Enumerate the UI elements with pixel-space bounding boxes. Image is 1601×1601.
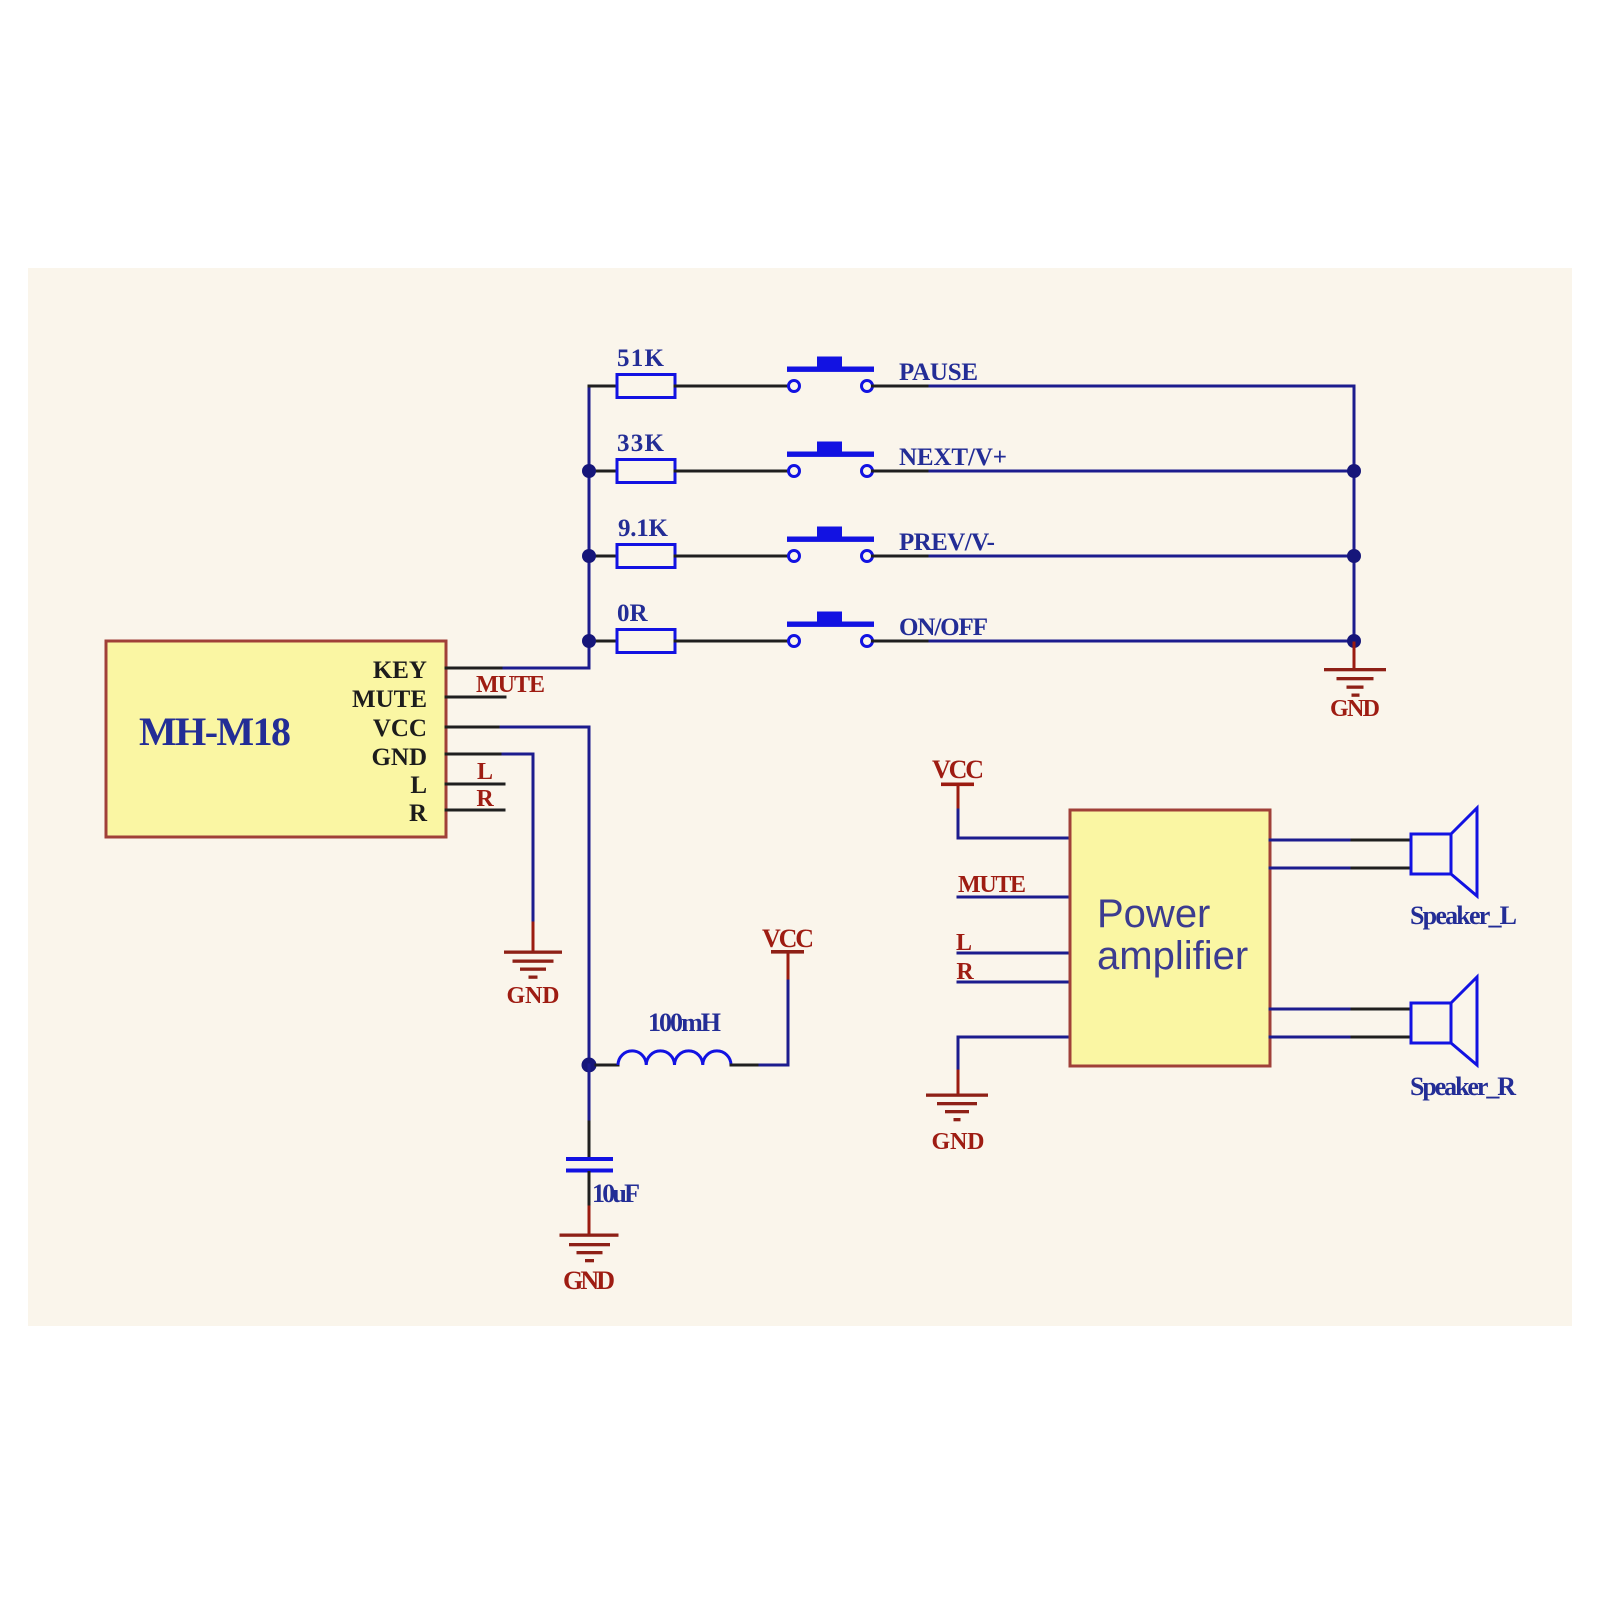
svg-text:amplifier: amplifier [1097,934,1248,978]
wire: GND to amplifier [958,1037,1070,1071]
wire: row4 bus to resistor [589,640,617,643]
svg-text:GND: GND [563,1266,615,1295]
block Power amplifier [1070,810,1270,1066]
ground symbol right [1324,668,1386,697]
wire: row2 bus to resistor [589,470,617,473]
wire: red stub to right ground [1353,643,1356,668]
speaker Speaker_L [1411,808,1477,896]
wire: module GND to ground [503,754,533,923]
junction dots on left bus [582,464,596,478]
node: VCC junction [582,1058,597,1073]
resistor 33K [617,460,675,483]
wire: capacitor to ground [588,1173,591,1208]
wire: L to amplifier [958,952,1070,955]
capacitor 10uF [566,1157,613,1173]
resistor 0R [617,630,675,653]
svg-text:10uF: 10uF [592,1179,640,1208]
pushbutton NEXT/V+ [787,442,874,477]
junction dots on right bus [1347,464,1361,478]
wire: amplifier to speaker L bottom [1270,867,1352,870]
wire: resistor to switch [675,470,789,473]
pushbutton PREV/V- [787,527,874,562]
resistor 51K [617,375,675,398]
wire: right bus with PAUSE top corner [930,386,1354,643]
wire: red stub module ground [532,923,535,950]
svg-text:L: L [410,772,427,799]
svg-text:0R: 0R [617,600,649,627]
svg-text:MUTE: MUTE [476,672,545,698]
svg-text:GND: GND [371,744,427,771]
wire: row1 bus to resistor [589,385,617,388]
wire: switch to right bus [873,385,931,388]
pin stub MUTE [446,696,505,699]
svg-text:GND: GND [1330,696,1380,722]
pushbutton ON/OFF [787,612,874,647]
wire: inductor to VCC riser [731,1064,760,1067]
wire: MUTE to amplifier [958,896,1070,899]
svg-text:Power: Power [1097,892,1210,936]
wire: VCC net down to inductor node [501,727,589,1065]
resistor 9.1K [617,545,675,568]
wire: switch to right bus [873,470,931,473]
svg-text:Speaker_R: Speaker_R [1410,1072,1516,1101]
wire: resistor to switch [675,385,789,388]
inductor 100mH [618,1051,731,1065]
pin stub GND [446,753,503,756]
wire: amplifier to speaker L top [1270,839,1352,842]
wire: row3 bus to resistor [589,555,617,558]
module MH-M18 [106,641,446,837]
svg-text:PAUSE: PAUSE [899,359,978,386]
power symbol VCC amplifier [941,783,974,787]
pin stub KEY [446,667,501,670]
svg-text:MUTE: MUTE [352,686,427,713]
wire: left bus from KEY pin up to PAUSE row [501,386,589,668]
wire: red stub amplifier ground [957,1071,960,1093]
wire: red stub VCC amplifier [957,786,960,810]
svg-text:MUTE: MUTE [958,872,1026,898]
ground symbol amplifier [926,1094,988,1122]
wire: switch to right bus [873,555,931,558]
svg-text:NEXT/V+: NEXT/V+ [899,444,1007,471]
wire: node down to capacitor [588,1065,591,1122]
svg-text:100mH: 100mH [648,1008,721,1037]
svg-text:GND: GND [932,1129,985,1155]
power symbol VCC (inductor side) [771,950,804,954]
speaker Speaker_R [1411,977,1477,1065]
wire: red stub to VCC bar [787,953,790,978]
wire: R to amplifier [958,981,1070,984]
wire: resistor to switch [675,555,789,558]
wire: VCC to amplifier [958,810,1070,838]
svg-text:ON/OFF: ON/OFF [899,614,988,641]
svg-text:51K: 51K [617,345,665,372]
wire: node to inductor [596,1064,618,1067]
svg-text:R: R [409,800,428,827]
svg-text:VCC: VCC [762,924,814,953]
svg-text:9.1K: 9.1K [618,515,669,542]
svg-text:R: R [476,786,494,812]
svg-text:33K: 33K [617,430,665,457]
wire: resistor to switch [675,640,789,643]
ground symbol capacitor [560,1234,619,1263]
svg-text:Speaker_L: Speaker_L [1410,901,1517,930]
pin stub L [446,783,504,786]
pushbutton PAUSE [787,357,874,392]
svg-text:PREV/V-: PREV/V- [899,529,995,556]
wire: switch to right bus [873,640,931,643]
ground symbol module [504,951,562,979]
wire: amplifier to speaker R top [1270,1008,1352,1011]
wire: amplifier to speaker R bottom [1270,1036,1352,1039]
svg-text:KEY: KEY [373,657,427,684]
svg-text:MH-M18: MH-M18 [139,709,291,754]
svg-text:GND: GND [507,983,560,1009]
svg-text:L: L [477,759,493,785]
pin stub R [446,809,504,812]
schematic sheet background [28,268,1572,1326]
svg-text:VCC: VCC [932,755,984,784]
pin stub VCC [446,726,501,729]
svg-text:VCC: VCC [373,715,427,742]
